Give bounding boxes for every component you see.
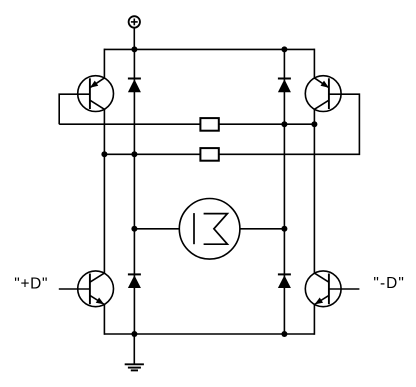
- node row1 right junction: [311, 121, 317, 127]
- ground: [125, 364, 144, 370]
- diode D2: [278, 79, 291, 93]
- node row2 left junction: [101, 151, 107, 157]
- transistor Q1: [78, 76, 114, 112]
- power terminal +V: [129, 16, 140, 27]
- diode D1: [128, 79, 141, 93]
- wire left diode chain: [133, 49, 135, 334]
- node row2 diode junction: [131, 151, 137, 157]
- transistor Q2: [305, 76, 341, 112]
- wire top rail: [104, 48, 314, 50]
- wire Q1 base loop: [59, 94, 90, 124]
- wire R1 to right node: [219, 123, 315, 125]
- wire Q4 base lead -D: [329, 288, 360, 290]
- svg-text:"-D": "-D": [373, 275, 405, 292]
- node V+ rail right junction: [281, 46, 287, 52]
- svg-text:"+D": "+D": [14, 275, 48, 292]
- diode D4: [278, 274, 291, 288]
- node motor left junction: [131, 226, 137, 232]
- node ground rail left junction: [131, 331, 137, 337]
- transistor Q4: [305, 271, 341, 307]
- node V+ rail left junction: [131, 46, 137, 52]
- wire Q3 base lead +D: [59, 288, 90, 290]
- wire left vertical upper: [103, 49, 105, 79]
- wire right diode chain: [283, 49, 285, 334]
- wire left vertical lower: [103, 304, 105, 335]
- wire motor left: [134, 228, 179, 230]
- wire power stem: [133, 28, 135, 50]
- wire left vertical middle: [103, 109, 105, 273]
- resistor R1: [200, 118, 218, 131]
- diode D3: [128, 274, 141, 288]
- wire right vertical middle: [313, 109, 315, 273]
- wire motor right: [240, 228, 285, 230]
- wire R2 to Q2 base loop: [219, 94, 360, 154]
- transistor Q3: [78, 271, 114, 307]
- node row1 diode junction: [281, 121, 287, 127]
- node ground rail right junction: [281, 331, 287, 337]
- wire row1 left to R1: [59, 123, 200, 125]
- wire left node to R2: [104, 153, 200, 155]
- wire right vertical lower: [313, 304, 315, 335]
- wire right vertical upper: [313, 49, 315, 79]
- resistor R2: [200, 148, 218, 161]
- wire bottom rail: [104, 333, 314, 335]
- node motor right junction: [281, 226, 287, 232]
- motor M1: [179, 199, 240, 260]
- wire ground stem: [133, 334, 135, 364]
